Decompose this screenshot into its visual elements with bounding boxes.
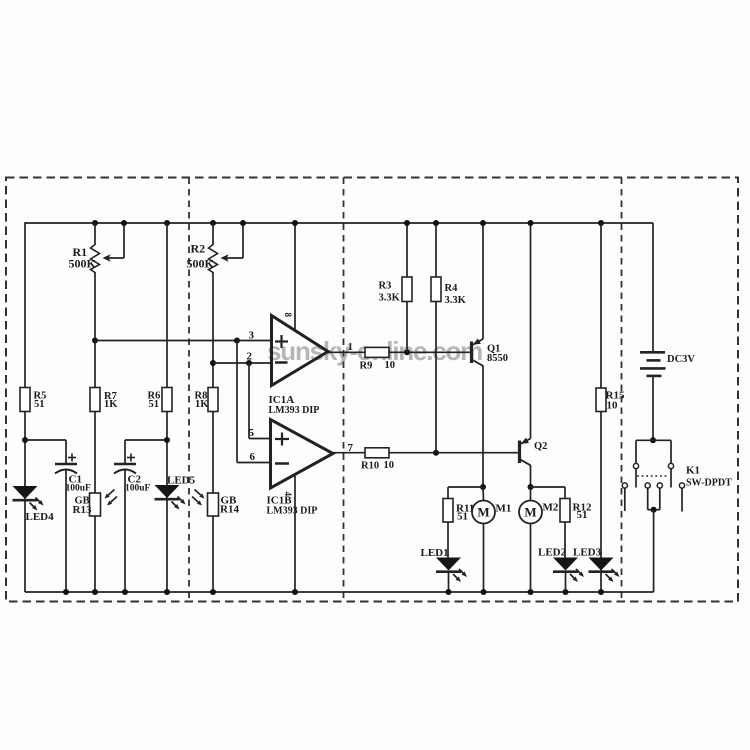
switch coupling dotted line	[637, 475, 668, 477]
wire R11-to-LED1	[447, 522, 449, 558]
junction dot R15-top	[598, 220, 604, 226]
svg-text:R14: R14	[220, 504, 239, 516]
wire resistor R4 column	[435, 223, 437, 453]
wire bottom ground rail	[25, 591, 654, 593]
wire R13-to-ground	[94, 516, 96, 592]
svg-text:R2: R2	[191, 242, 206, 256]
svg-text:R4: R4	[445, 283, 459, 294]
junction dot pin3-pin6 tap	[234, 338, 240, 344]
wire IC1A power pin 8	[294, 223, 296, 331]
svg-text:51: 51	[577, 509, 588, 521]
motor M1	[472, 501, 495, 524]
svg-text:8550: 8550	[487, 353, 508, 364]
label LED4	[26, 511, 55, 523]
wire LED1-to-ground	[448, 572, 450, 593]
label LED2	[538, 547, 567, 559]
svg-text:M: M	[524, 505, 536, 520]
svg-text:4: 4	[283, 492, 293, 497]
wire R15 column	[600, 223, 602, 592]
label C2	[125, 474, 151, 494]
wire M2 top lead	[530, 487, 532, 501]
resistor R8	[208, 388, 218, 412]
dashed divider 2	[343, 178, 345, 602]
resistor R15	[596, 388, 606, 412]
wire R10-to-Q2base	[389, 452, 520, 454]
LED LED5	[155, 485, 186, 510]
svg-text:LED5: LED5	[167, 475, 196, 487]
junction dot IC1B-ground	[292, 589, 298, 595]
wire M2 bottom lead	[530, 524, 532, 593]
LED LED3	[589, 558, 620, 583]
label R11	[456, 503, 474, 523]
wire M1 bottom lead	[483, 524, 485, 593]
label R6	[148, 391, 161, 411]
junction dot R2-wiper-top	[240, 220, 246, 226]
switch K1 pole contacts	[633, 463, 673, 468]
svg-text:LED1: LED1	[421, 547, 449, 559]
junction dot IC1A-power	[292, 220, 298, 226]
svg-text:51: 51	[34, 399, 45, 410]
wire R7-to-R13	[94, 412, 96, 494]
wire R12 branch	[531, 487, 566, 499]
wire Q1 collector down	[482, 366, 484, 488]
junction dot R1-wiper-top	[121, 220, 127, 226]
wire switch top bar	[636, 440, 671, 463]
dashed divider 1	[188, 178, 190, 602]
label C1	[66, 474, 92, 494]
wire Q2 emitter up	[530, 223, 532, 439]
junction dot Q2-collector-node	[528, 484, 534, 490]
wire Q2 collector down	[530, 465, 532, 487]
svg-text:5: 5	[249, 427, 255, 439]
pin number 6	[250, 451, 256, 463]
junction dot LED3-ground	[598, 589, 604, 595]
label R14	[220, 495, 239, 516]
junction dot R14-ground	[210, 589, 216, 595]
resistor R3	[402, 277, 412, 302]
svg-text:3.3K: 3.3K	[379, 293, 401, 304]
resistor R11	[443, 499, 453, 523]
junction dot R3-top	[404, 220, 410, 226]
label R15	[606, 390, 625, 412]
svg-text:500K: 500K	[69, 257, 97, 271]
svg-text:7: 7	[348, 442, 354, 454]
svg-text:51: 51	[457, 511, 468, 523]
transistor Q1	[472, 339, 484, 366]
wire pin5 drop	[248, 363, 250, 439]
svg-text:3: 3	[249, 330, 255, 342]
svg-text:LED4: LED4	[26, 511, 55, 523]
svg-text:DC3V: DC3V	[667, 354, 695, 365]
dashed divider 3	[621, 178, 623, 602]
wire C1 branch horizontal	[25, 439, 66, 441]
label Q1	[487, 344, 508, 365]
svg-text:Q2: Q2	[534, 441, 547, 452]
svg-text:10: 10	[607, 400, 619, 412]
junction dot Q1-collector-node	[480, 484, 486, 490]
svg-text:R13: R13	[73, 504, 92, 516]
wire C1 top lead	[65, 440, 67, 464]
capacitor C1	[55, 454, 77, 474]
wire R2 wiper bracket	[226, 223, 243, 258]
pin number 7	[348, 442, 354, 454]
label LED3	[573, 547, 602, 559]
svg-text:10: 10	[384, 460, 395, 471]
junction dot M1-ground	[481, 589, 487, 595]
wire pin2 net	[213, 362, 272, 364]
svg-text:R10: R10	[361, 461, 379, 472]
label R3	[379, 281, 401, 304]
wire C2 bottom lead	[124, 470, 126, 592]
label R7	[104, 391, 118, 410]
label M2	[543, 502, 559, 514]
junction dot R4-node	[433, 450, 439, 456]
junction dot node A pin3	[92, 338, 98, 344]
junction dot C2 branch	[164, 437, 170, 443]
op-amp IC1B	[271, 420, 334, 489]
wire R2 upper lead	[212, 223, 214, 245]
resistor R6	[162, 388, 172, 412]
svg-text:1K: 1K	[195, 399, 209, 410]
wire pin5 horizontal	[249, 438, 271, 440]
op-amp IC1A	[272, 316, 329, 386]
wire R12-to-LED2	[564, 522, 566, 558]
label LED5	[167, 475, 196, 487]
svg-text:LED3: LED3	[573, 547, 602, 559]
junction dot LED1-ground	[446, 589, 452, 595]
label R12	[573, 502, 592, 522]
svg-text:10: 10	[385, 360, 396, 371]
label R2	[187, 242, 215, 271]
resistor R4	[431, 277, 441, 302]
svg-text:K1: K1	[686, 465, 700, 477]
svg-text:100uF: 100uF	[125, 484, 151, 494]
junction dot R4-top	[433, 220, 439, 226]
wire R14-to-ground	[212, 516, 214, 592]
wire IC1B ground pin 4	[294, 475, 296, 593]
wire C2 branch horizontal	[125, 439, 167, 441]
pin number 5	[249, 427, 255, 439]
svg-text:M1: M1	[496, 503, 512, 515]
label IC1B	[267, 495, 318, 517]
label K1	[686, 465, 732, 489]
junction dot R6-top	[164, 220, 170, 226]
svg-text:6: 6	[250, 451, 256, 463]
pin number 8 mark	[283, 313, 293, 318]
junction dot Q2-emitter-rail	[528, 220, 534, 226]
wire LED2-to-ground	[565, 572, 567, 593]
label R5	[34, 391, 47, 411]
arrowhead R2 wiper	[221, 254, 229, 261]
junction dot pin2-pin5 tap	[246, 360, 252, 366]
resistor R12	[560, 499, 570, 523]
svg-text:R9: R9	[360, 361, 373, 372]
svg-text:M2: M2	[543, 502, 559, 514]
wire battery bottom lead	[652, 377, 654, 440]
label IC1A	[269, 394, 320, 416]
svg-text:51: 51	[149, 399, 160, 410]
wire R1 wiper bracket	[108, 223, 124, 258]
LED LED1	[436, 558, 467, 583]
label R1	[69, 245, 97, 271]
svg-text:SW-DPDT: SW-DPDT	[686, 478, 732, 489]
label R4	[445, 283, 467, 306]
motor M2	[519, 501, 542, 524]
potentiometer R1 body	[91, 245, 100, 273]
junction dot node B pin2	[210, 360, 216, 366]
svg-text:R3: R3	[379, 281, 392, 292]
wire switch to ground rail	[653, 510, 655, 592]
capacitor C2	[114, 454, 136, 474]
label LED1	[421, 547, 449, 559]
svg-text:500K: 500K	[187, 257, 215, 271]
junction dot Q1-emitter-rail	[480, 220, 486, 226]
junction dot C2-ground	[122, 589, 128, 595]
svg-text:LED2: LED2	[538, 547, 567, 559]
wire R9-to-Q1base	[389, 351, 472, 353]
wire left column	[24, 222, 26, 592]
dashed outer border	[6, 178, 738, 602]
svg-text:1: 1	[348, 341, 354, 353]
battery DC3V	[640, 352, 666, 376]
wire switch arms	[636, 469, 671, 488]
resistor R9	[365, 347, 389, 357]
label DC3V	[667, 354, 695, 365]
transistor Q2	[520, 438, 531, 466]
svg-text:LM393 DIP: LM393 DIP	[269, 405, 320, 416]
wire R11 branch	[448, 487, 483, 499]
junction dot M2-ground	[528, 589, 534, 595]
photoresistor R13 GB	[90, 490, 118, 517]
svg-text:8: 8	[283, 313, 293, 318]
pin number 1	[348, 341, 354, 353]
label Q2	[534, 441, 547, 452]
junction dot R1-top	[92, 220, 98, 226]
wire R1 upper lead	[94, 223, 96, 245]
wire throw stubs	[625, 488, 682, 511]
wire M1 top lead	[482, 487, 485, 501]
resistor R5	[20, 388, 30, 412]
label M1	[496, 503, 512, 515]
pin number 2	[247, 351, 253, 363]
resistor R10	[365, 448, 389, 458]
label R9	[360, 360, 396, 372]
wire pin3 net	[95, 340, 272, 342]
junction dot R13-ground	[92, 589, 98, 595]
wire pin6 horizontal	[237, 462, 271, 464]
wire pin6 drop	[236, 341, 238, 463]
wire R6 column	[166, 223, 168, 592]
potentiometer R2 body	[209, 245, 218, 273]
pin number 3	[249, 330, 255, 342]
switch K1 throw contacts	[622, 483, 684, 488]
wire IC1B output	[333, 452, 365, 454]
wire IC1A output	[328, 351, 365, 353]
pin number 4 mark	[283, 492, 293, 497]
wire battery top lead	[652, 223, 654, 351]
wire R1-to-R7	[94, 272, 96, 388]
junction node C1 branch	[22, 437, 28, 443]
LED LED2	[553, 558, 584, 583]
resistor R7	[90, 388, 100, 412]
junction dot LED2-ground	[563, 589, 569, 595]
svg-text:2: 2	[247, 351, 253, 363]
junction dot R2-top	[210, 220, 216, 226]
wire R8-to-R14	[212, 412, 214, 494]
junction dot R3-node	[404, 349, 410, 355]
svg-text:1K: 1K	[104, 399, 118, 410]
watermark sunsky-online.com	[267, 336, 482, 366]
svg-text:LM393 DIP: LM393 DIP	[267, 506, 318, 517]
wire R2-to-R8	[212, 272, 214, 388]
svg-text:M: M	[477, 505, 489, 520]
wire resistor R3 column	[406, 223, 408, 352]
wire C2 top lead	[124, 440, 126, 464]
wire C1 bottom lead	[65, 470, 67, 592]
label R13	[73, 496, 92, 517]
wire Q1 emitter up	[482, 223, 484, 339]
label R8	[195, 391, 210, 411]
svg-text:3.3K: 3.3K	[445, 295, 467, 306]
junction dot switch-output	[651, 507, 657, 513]
arrowhead R1 wiper	[103, 254, 111, 261]
LED LED4	[13, 486, 44, 511]
label R10	[361, 460, 394, 472]
wire top power rail	[25, 222, 653, 224]
svg-text:100uF: 100uF	[66, 484, 92, 494]
junction dot C1-ground	[63, 589, 69, 595]
junction dot switch-top	[650, 437, 656, 443]
junction dot LED5-ground	[164, 589, 170, 595]
photoresistor R14 GB	[192, 490, 219, 517]
wire switch output U	[648, 488, 660, 510]
